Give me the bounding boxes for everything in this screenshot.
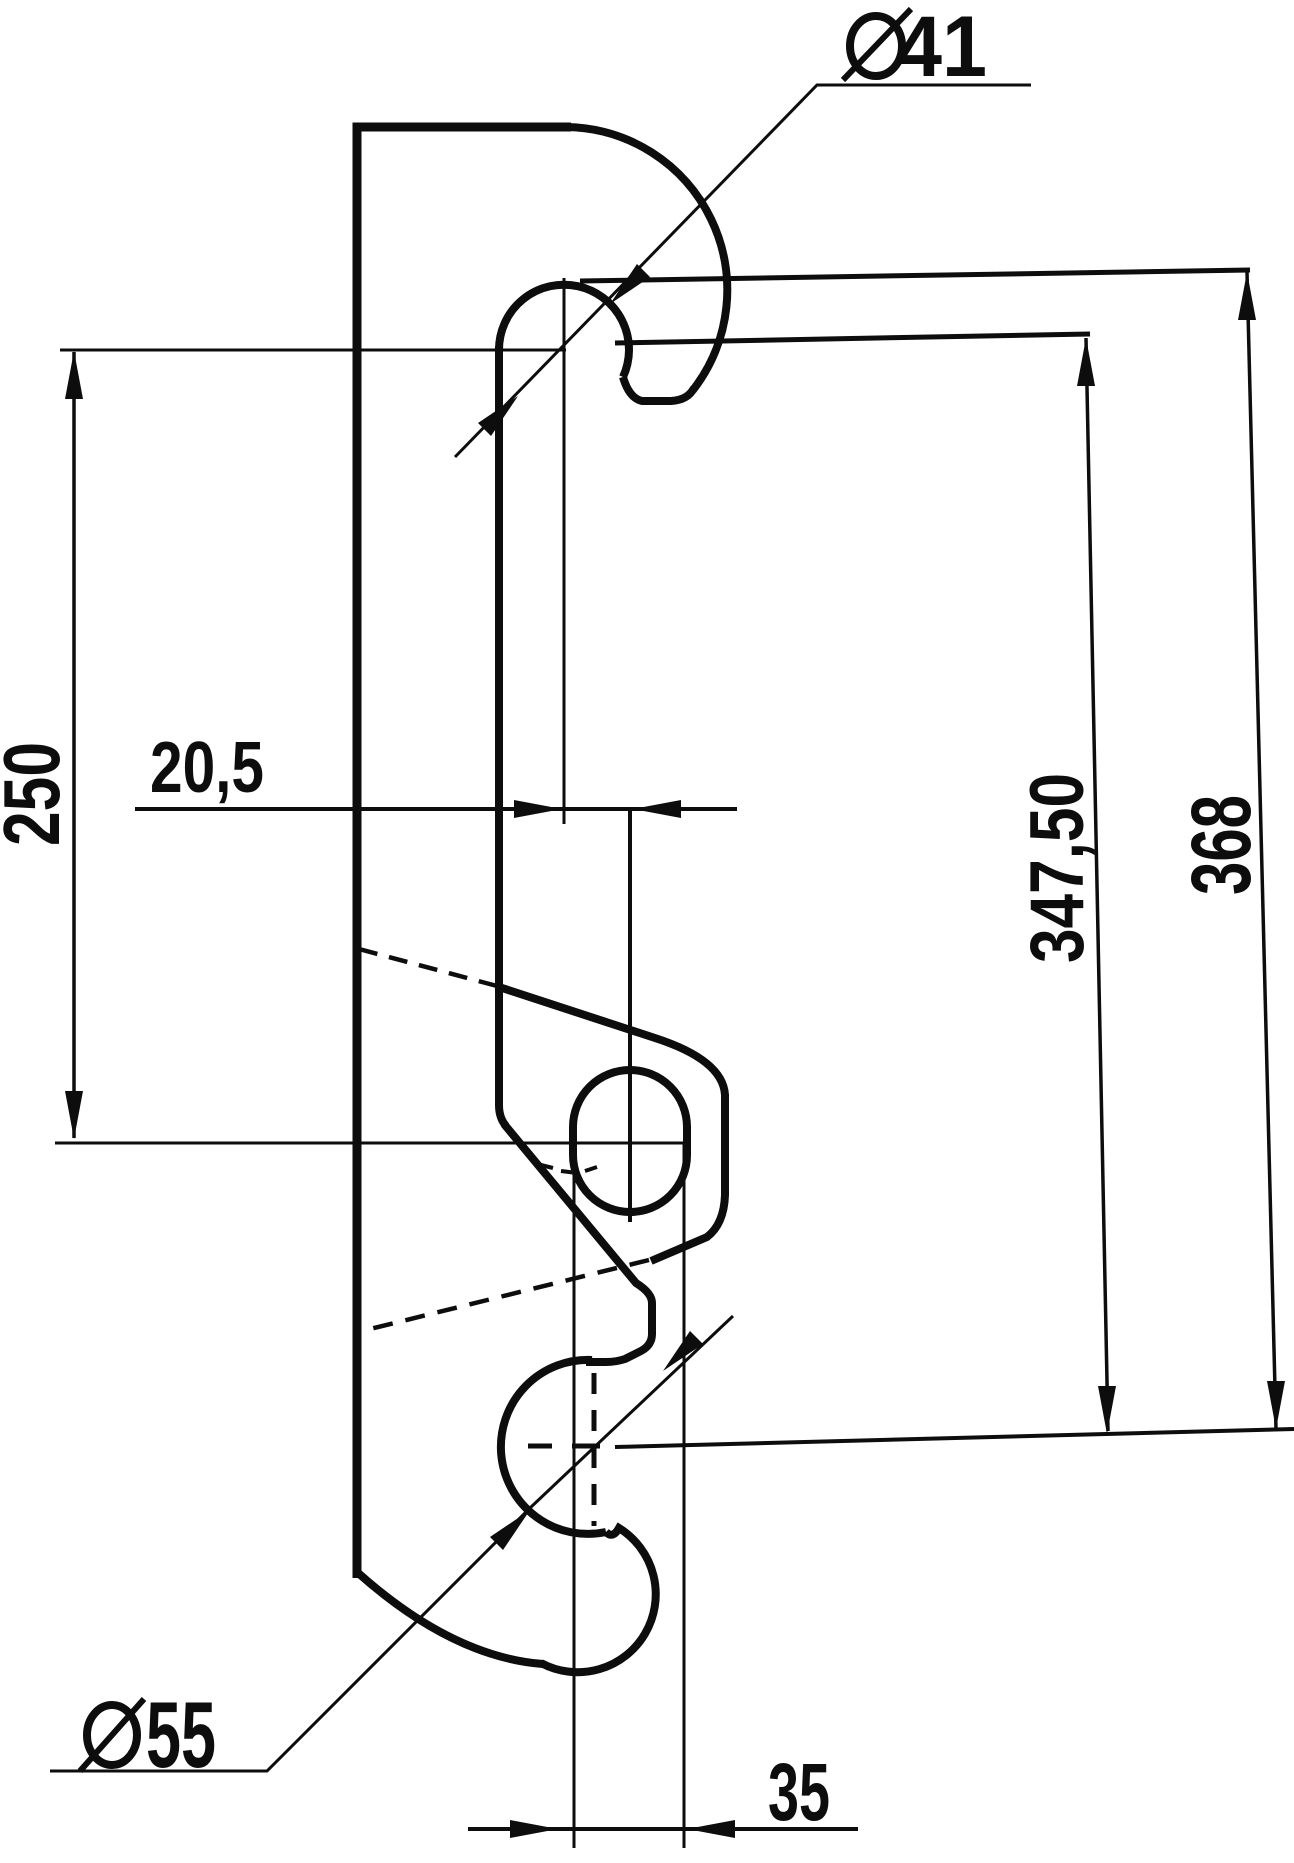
347.5 top extension line	[615, 334, 1090, 343]
arrow diam55 upper	[663, 1331, 703, 1371]
arrow 368 top	[1238, 272, 1256, 320]
arrow 250 bottom	[65, 1091, 83, 1139]
hidden edge dashed line lower	[362, 1260, 649, 1331]
bottom outer edge	[357, 1572, 543, 1664]
oval horizontal centerline (250 and 35 extension)	[55, 1142, 684, 1145]
label diameter symbol 41	[843, 9, 911, 80]
top hook horizontal centerline	[60, 349, 566, 352]
inner vertical edge	[499, 346, 506, 1126]
35 dimension line	[468, 1827, 858, 1831]
diameter 55 leader line	[50, 1316, 733, 1771]
small hidden dashes near oval	[537, 1164, 597, 1173]
diameter 41 leader line	[455, 85, 1031, 457]
svg-text:35: 35	[768, 1747, 830, 1838]
svg-text:250: 250	[0, 742, 76, 846]
bottom hook dashed horizontal centerline	[528, 1444, 600, 1449]
20.5 dimension line	[135, 807, 737, 811]
35 left extension line	[573, 1144, 576, 1848]
plate left and top edges	[357, 127, 571, 1578]
347.5 dimension line	[1086, 338, 1108, 1431]
bottom hook dashed vertical centerline	[592, 1373, 597, 1526]
arrow diam41 upper	[610, 264, 650, 304]
svg-text:368: 368	[1174, 795, 1268, 895]
top hook mouth lip	[623, 377, 694, 401]
hidden edge dashed line upper	[359, 949, 497, 986]
arrow 250 top	[65, 351, 83, 399]
arrow 20.5 right	[633, 800, 681, 818]
arrow 35 left	[510, 1820, 558, 1838]
arrow 347.5 top	[1077, 338, 1095, 386]
arrow 347.5 bottom	[1098, 1386, 1116, 1434]
bend diagonal edge and step	[504, 1124, 652, 1362]
35 right extension line	[683, 1143, 686, 1848]
arrow 35 right	[687, 1820, 735, 1838]
arrow diam55 lower	[490, 1510, 530, 1550]
svg-text:20,5: 20,5	[150, 728, 264, 808]
250 dimension line	[72, 352, 76, 1138]
top outer arc	[566, 127, 727, 390]
arrow 20.5 left	[514, 800, 562, 818]
368 dimension line	[1247, 272, 1276, 1429]
arrow 368 bottom	[1267, 1381, 1285, 1429]
bottom extension line	[615, 1429, 1294, 1447]
bent flange (protrusion) edge	[499, 987, 725, 1261]
bottom hook tip lobe	[541, 1528, 656, 1672]
hook mouth circle arc (diam 41)	[499, 285, 629, 377]
svg-text:55: 55	[146, 1682, 216, 1787]
top hook vertical centerline	[563, 278, 566, 824]
label diameter symbol 55	[80, 1699, 144, 1771]
oval hole	[573, 1070, 687, 1212]
368 top extension line	[580, 270, 1250, 281]
oval vertical centerline	[628, 809, 632, 1222]
arrow diam41 lower	[478, 396, 518, 436]
svg-text:41: 41	[897, 0, 987, 95]
bottom hook circle arc (diam 55)	[501, 1360, 606, 1534]
svg-text:347,50: 347,50	[1015, 773, 1100, 963]
